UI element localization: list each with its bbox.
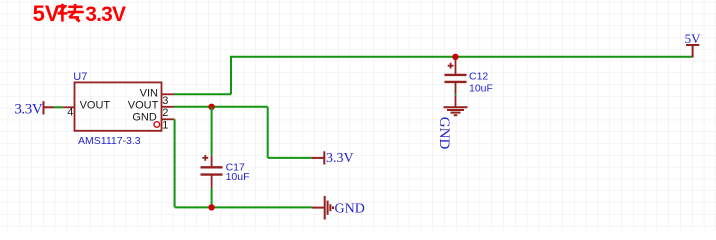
pin 2 [162, 106, 175, 108]
wire bottom GND rail [175, 206, 312, 208]
wire C12 to ground [455, 94, 457, 96]
junction C17 / GND rail [208, 204, 214, 210]
pin name VOUT (pin 4) [80, 100, 111, 112]
wire pin4 to port [54, 106, 63, 108]
op-amp U7 regulator body AMS1117-3.3 [75, 82, 162, 130]
pin number 1 [162, 120, 168, 132]
wire junction down to C17 [211, 107, 213, 156]
svg-text:VOUT: VOUT [80, 100, 111, 112]
value 10uF [226, 171, 250, 183]
wire pin2 to corner [174, 106, 268, 108]
svg-text:3: 3 [162, 95, 168, 107]
pin name VOUT (pin 2) [128, 100, 159, 112]
svg-text:1: 1 [162, 120, 168, 132]
svg-text:VOUT: VOUT [128, 100, 159, 112]
pin number 3 [162, 95, 168, 107]
svg-text:10uF: 10uF [469, 83, 493, 95]
pin number 4 [67, 107, 73, 119]
svg-text:5V: 5V [685, 31, 702, 46]
designator C17 [226, 161, 245, 173]
svg-text:4: 4 [67, 107, 73, 119]
svg-text:C12: C12 [469, 71, 488, 83]
dot marker near pin 1 [154, 122, 160, 128]
power port 3.3V right [311, 151, 353, 166]
svg-text:3.3V: 3.3V [85, 3, 126, 26]
pin 3 [162, 93, 175, 95]
svg-text:5V: 5V [33, 1, 60, 26]
svg-text:3.3V: 3.3V [326, 151, 354, 166]
power port 3.3V left [14, 101, 54, 118]
pin name GND (pin 1) [132, 112, 157, 124]
wire riser to 5V rail [230, 57, 232, 95]
value label AMS1117-3.3 [78, 135, 141, 147]
wire 5V rail [230, 56, 693, 58]
wire to 3.3V port [268, 157, 312, 159]
power port 5V [685, 31, 702, 58]
junction pin2 / C17 [208, 104, 214, 110]
wire C17 to bottom rail [211, 188, 213, 207]
pin 4 [63, 106, 75, 108]
power port GND right [312, 196, 365, 220]
value 10uF [469, 83, 493, 95]
wire riser down to 3.3V row [267, 107, 269, 158]
svg-text:GND: GND [436, 117, 452, 150]
svg-text:U7: U7 [73, 71, 87, 83]
svg-text:10uF: 10uF [226, 171, 250, 183]
pin 1 [162, 118, 175, 120]
ground GND below C12 [436, 96, 467, 149]
capacitor C12 10uF [445, 58, 467, 94]
wire pin3 to riser [174, 93, 231, 95]
designator U7 [73, 71, 87, 83]
pin name VIN (pin 3) [140, 87, 158, 99]
capacitor C17 10uF [201, 155, 223, 188]
wire pin1 down [174, 119, 176, 207]
svg-text:VIN: VIN [140, 87, 158, 99]
svg-text:3.3V: 3.3V [14, 102, 43, 118]
pin number 2 [162, 107, 168, 119]
title text 5V转3.3V [33, 1, 126, 26]
svg-text:2: 2 [162, 107, 168, 119]
svg-text:GND: GND [335, 201, 365, 216]
junction on 5V rail [452, 54, 458, 60]
svg-text:GND: GND [132, 112, 157, 124]
designator C12 [469, 71, 488, 83]
svg-text:AMS1117-3.3: AMS1117-3.3 [78, 135, 141, 147]
